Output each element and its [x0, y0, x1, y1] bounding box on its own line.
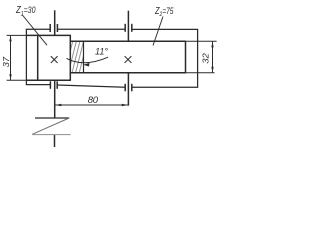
leader Z1 [22, 15, 47, 46]
svg-text:32: 32 [201, 53, 210, 64]
shaft I lower segment [54, 80, 56, 118]
extension line right top (dim 32) [186, 40, 217, 42]
extension line right bottom (dim 32) [186, 72, 215, 74]
dim 32 arrow bottom [211, 67, 213, 73]
dim 32 arrow top [211, 42, 213, 48]
extension line bottom (dim 37) [7, 79, 26, 81]
mesh right boundary [83, 41, 85, 72]
dim line 37 [10, 36, 12, 81]
bearing shaft II bottom [125, 84, 132, 92]
svg-text:11°: 11° [95, 46, 108, 56]
gear Z2 bottom edge [71, 72, 186, 74]
center mark gear 2 [125, 56, 132, 63]
shaft II upper segment [127, 11, 129, 42]
gear Z2 top edge [70, 40, 185, 42]
housing line top-middle [57, 28, 125, 30]
break symbol on shaft I [32, 118, 71, 135]
center mark gear 1 [51, 56, 58, 63]
shaft I stub below break [54, 135, 56, 147]
dim line 80 [55, 104, 129, 106]
housing line top-right with corner down to lower bearing [132, 29, 198, 87]
bearing shaft II top [125, 24, 132, 32]
gear Z1 right / mesh left boundary [69, 35, 71, 81]
shaft I upper segment [54, 10, 56, 35]
gear Z1 bottom edge [26, 79, 71, 81]
helix angle arrowhead [83, 63, 89, 67]
svg-text:37: 37 [2, 56, 11, 68]
gear Z1 top edge [26, 34, 70, 36]
helix angle arc 11deg [67, 57, 109, 63]
gear Z2 right edge [185, 41, 187, 74]
hatch mesh zone Z1/Z2 engagement [65, 41, 87, 73]
gear Z1 inner vertical [37, 35, 39, 80]
dim 80 arrow right [122, 104, 128, 106]
leader Z2 [153, 17, 163, 46]
housing line top-left with corner [26, 29, 50, 84]
svg-text:80: 80 [88, 95, 99, 106]
extension line top (dim 37) [7, 34, 26, 36]
bearing shaft I top [50, 24, 57, 32]
shaft II lower segment [127, 73, 129, 106]
housing line bottom-middle [57, 85, 125, 87]
dim line 32 [212, 42, 214, 73]
dim 37 arrow top [9, 36, 11, 42]
bearing shaft I bottom [50, 81, 57, 89]
dim 37 arrow bottom [9, 74, 11, 80]
dim 80 arrow left [55, 104, 61, 106]
